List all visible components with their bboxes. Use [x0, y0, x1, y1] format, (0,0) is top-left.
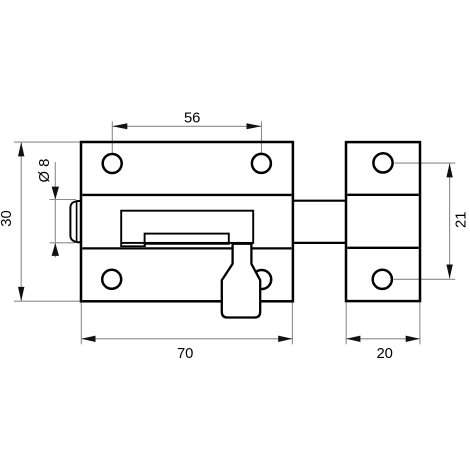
svg-text:21: 21	[453, 212, 469, 228]
svg-text:70: 70	[177, 346, 193, 362]
svg-text:20: 20	[376, 346, 392, 362]
svg-text:30: 30	[0, 210, 15, 226]
svg-text:Ø 8: Ø 8	[37, 159, 53, 183]
svg-text:56: 56	[184, 111, 200, 127]
